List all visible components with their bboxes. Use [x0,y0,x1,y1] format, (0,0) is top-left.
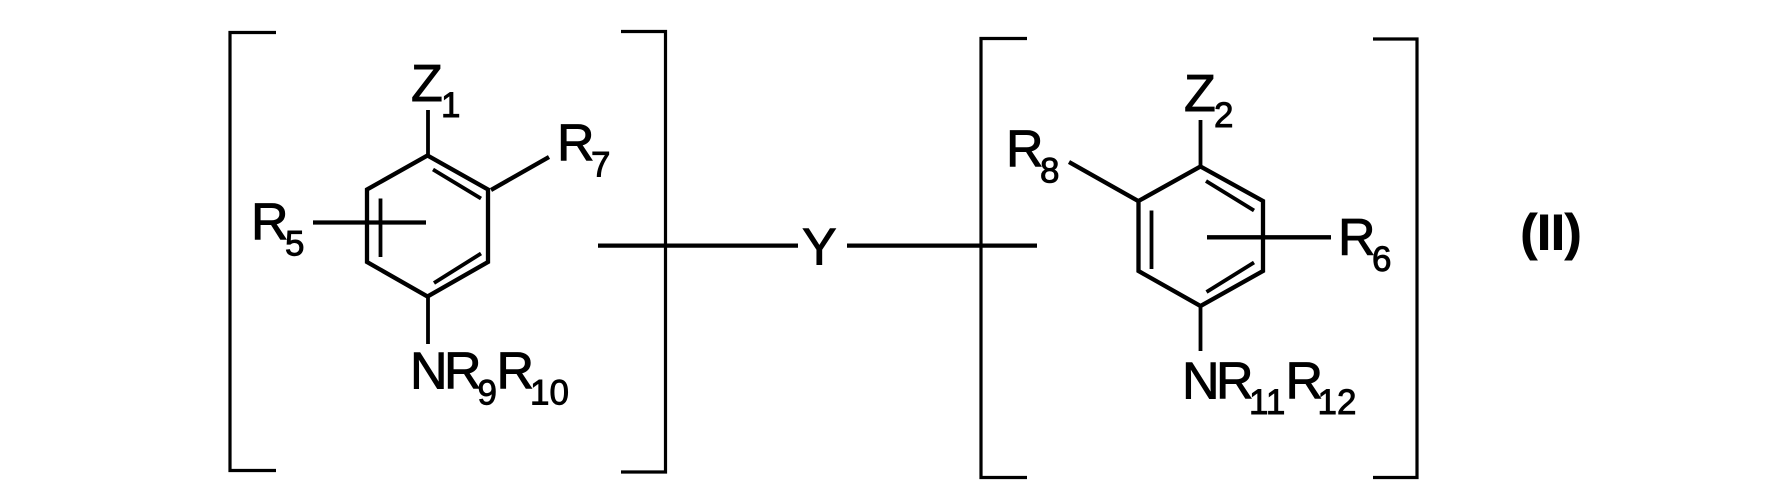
right bracket close [1373,39,1417,478]
bond NR11R12 [1199,306,1203,351]
left bracket open [230,33,276,471]
double bond right-ring bottom-right edge [1207,263,1255,293]
svg-text:R: R [497,343,535,401]
svg-text:7: 7 [591,146,610,185]
bond Z2 [1199,120,1203,167]
bond R8 [1069,162,1140,202]
wire Y right segment [847,243,1037,247]
left bracket close [621,32,666,473]
svg-text:Z: Z [411,55,443,113]
wire Y left segment [598,243,798,247]
svg-text:R: R [1006,121,1044,179]
svg-text:R: R [251,194,289,252]
double bond right-ring left edge [1150,211,1154,270]
svg-text:R: R [557,115,595,173]
svg-text:1: 1 [441,86,460,125]
double bond right-ring top-right edge [1206,181,1254,211]
bond Z1 [426,110,430,156]
bond R5 [313,220,426,224]
svg-text:12: 12 [1318,383,1357,422]
bond R6 [1207,235,1331,239]
svg-text:8: 8 [1040,152,1059,191]
svg-text:Z: Z [1184,65,1216,123]
svg-text:6: 6 [1372,240,1391,279]
benzene ring right [1139,167,1264,307]
bond NR9R10 [426,297,430,345]
svg-text:10: 10 [530,374,569,413]
svg-text:N: N [410,343,448,401]
svg-text:11: 11 [1249,383,1285,422]
benzene ring left [367,156,488,297]
svg-text:2: 2 [1214,96,1233,135]
svg-text:9: 9 [478,374,497,413]
bond R7 [491,157,549,190]
double bond left-ring bottom-right edge [434,254,481,284]
svg-text:Y: Y [802,219,837,277]
svg-text:5: 5 [285,225,304,264]
svg-text:R: R [444,343,482,401]
svg-text:N: N [1182,353,1220,411]
svg-text:(II): (II) [1521,205,1582,261]
right bracket open [981,39,1027,478]
double bond left-ring left edge [379,199,383,258]
svg-text:R: R [1216,353,1254,411]
double bond left-ring top-right edge [433,170,481,199]
svg-text:R: R [1338,209,1376,267]
